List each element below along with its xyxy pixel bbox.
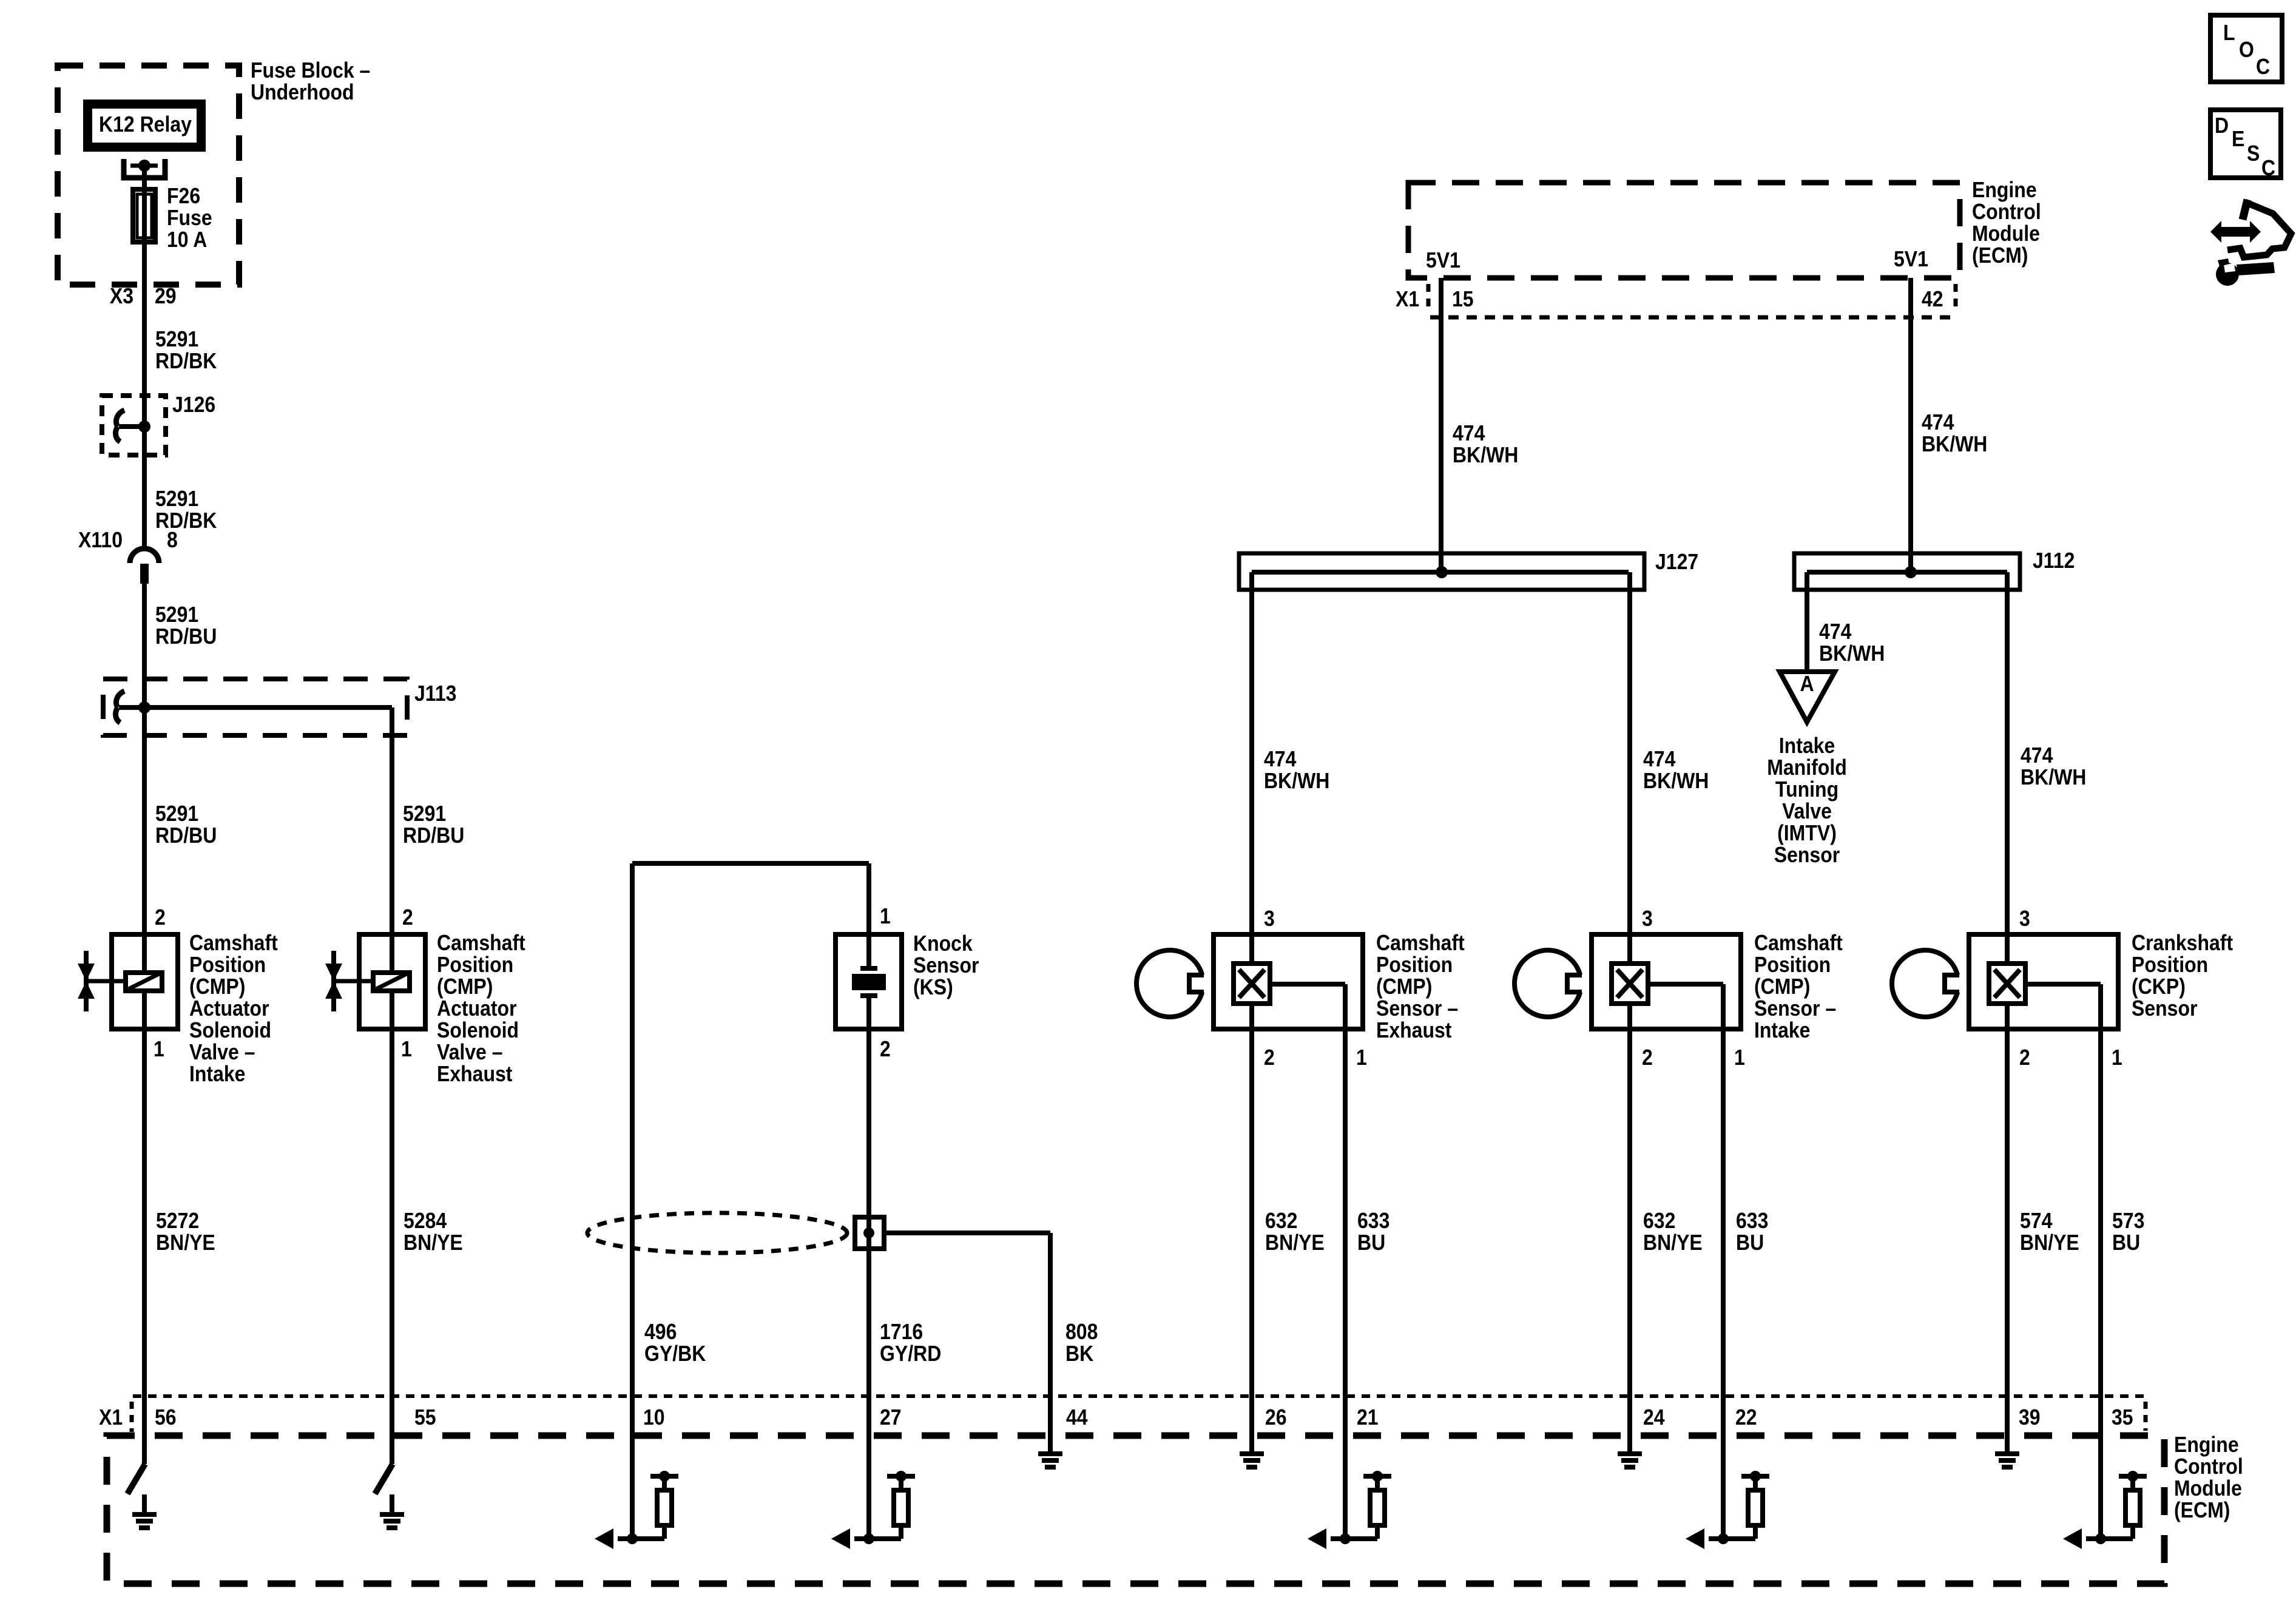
- svg-text:Control: Control: [1972, 200, 2041, 224]
- pin 55 label: [414, 1405, 436, 1430]
- label J127: [1655, 550, 1698, 574]
- node 5V1: [1426, 248, 1460, 272]
- svg-text:Valve –: Valve –: [437, 1040, 503, 1064]
- pin 42 label: [1922, 287, 1943, 311]
- CMP actuator solenoid valve intake: [78, 905, 278, 1086]
- svg-text:RD/BK: RD/BK: [155, 508, 217, 533]
- wire: [2098, 1436, 2103, 1539]
- svg-text:BK/WH: BK/WH: [1819, 641, 1885, 666]
- pin 22 label: [1735, 1405, 1757, 1430]
- svg-text:K12 Relay: K12 Relay: [99, 112, 192, 137]
- wire: [142, 166, 147, 548]
- svg-text:474: 474: [1453, 421, 1485, 445]
- svg-text:C: C: [2261, 156, 2275, 180]
- icon connector arrow: [2210, 200, 2291, 257]
- svg-text:1716: 1716: [880, 1320, 923, 1344]
- wire 5284 BN/YE: [392, 1031, 463, 1464]
- svg-text:633: 633: [1357, 1209, 1389, 1233]
- label 1716 GY/RD: [880, 1320, 941, 1366]
- svg-text:573: 573: [2112, 1209, 2144, 1233]
- svg-text:Underhood: Underhood: [251, 80, 354, 104]
- wire 573 BU: [2101, 1031, 2144, 1436]
- svg-text:Position: Position: [2132, 953, 2208, 977]
- ground: [1618, 1436, 1642, 1467]
- svg-text:Solenoid: Solenoid: [189, 1018, 271, 1042]
- wire: [1627, 932, 1632, 964]
- svg-text:5291: 5291: [155, 487, 198, 511]
- switch to ground: [127, 1464, 145, 1494]
- CMP sensor exhaust reluctor wheel: [1136, 950, 1203, 1017]
- CMP sensor exhaust: [1136, 906, 1465, 1070]
- connector X1 row: [132, 1396, 2146, 1432]
- svg-text:44: 44: [1066, 1405, 1088, 1430]
- CMP actuator solenoid valve exhaust: [325, 905, 525, 1086]
- pin 39 label: [2019, 1405, 2041, 1430]
- svg-text:55: 55: [414, 1405, 436, 1430]
- svg-text:496: 496: [644, 1320, 677, 1344]
- svg-text:15: 15: [1452, 287, 1474, 311]
- wire: [2005, 932, 2010, 964]
- svg-text:574: 574: [2020, 1209, 2052, 1233]
- wire 632 BN/YE: [1252, 1031, 1325, 1436]
- connector X1 row: [1428, 284, 1956, 317]
- splice J126: [102, 396, 166, 455]
- CMP sensor exhaust box: [1214, 934, 1363, 1029]
- svg-text:5291: 5291: [155, 327, 198, 351]
- CMP actuator solenoid exhaust coil: [373, 973, 410, 991]
- wire through intake solenoid: [142, 932, 147, 1031]
- ground: [380, 1494, 404, 1528]
- svg-text:42: 42: [1922, 287, 1943, 311]
- svg-text:Module: Module: [1972, 221, 2040, 246]
- svg-text:BK/WH: BK/WH: [1643, 769, 1709, 793]
- svg-text:Engine: Engine: [1972, 178, 2037, 202]
- svg-text:X110: X110: [78, 528, 123, 552]
- svg-text:1: 1: [880, 904, 891, 928]
- svg-text:35: 35: [2112, 1405, 2133, 1430]
- svg-text:Fuse Block –: Fuse Block –: [251, 58, 370, 83]
- internal resistor and signal arrow: [831, 1471, 915, 1549]
- svg-text:GY/BK: GY/BK: [644, 1342, 706, 1366]
- wire 633 BU: [1723, 1031, 1768, 1436]
- svg-text:474: 474: [1264, 747, 1296, 771]
- svg-text:1: 1: [401, 1037, 412, 1061]
- label X1: [99, 1405, 123, 1430]
- CKP sensor reluctor wheel: [1892, 950, 1959, 1017]
- svg-text:633: 633: [1736, 1209, 1768, 1233]
- wire 1716 GY/RD: [866, 1031, 871, 1436]
- svg-text:2: 2: [2019, 1045, 2030, 1070]
- splice pack J127: [1239, 553, 1644, 590]
- wire: [630, 1436, 635, 1539]
- svg-text:5272: 5272: [156, 1209, 199, 1233]
- svg-text:A: A: [1800, 672, 1814, 696]
- wire 574 BN/YE: [2007, 1031, 2079, 1436]
- svg-text:5V1: 5V1: [1894, 247, 1928, 271]
- wire J127 to CMP intake: [1627, 572, 1632, 932]
- CKP sensor box: [1969, 934, 2118, 1029]
- wire 5272 BN/YE: [144, 1031, 215, 1464]
- svg-text:1: 1: [1734, 1045, 1745, 1070]
- CKP sensor hall element: [1989, 964, 2025, 1004]
- connector X110 pin 8: [78, 528, 178, 584]
- svg-text:Actuator: Actuator: [189, 996, 269, 1021]
- svg-text:(CMP): (CMP): [1376, 974, 1432, 999]
- svg-text:BN/YE: BN/YE: [1643, 1230, 1703, 1255]
- label F26 Fuse 10 A: [167, 184, 212, 252]
- svg-text:Manifold: Manifold: [1767, 755, 1846, 780]
- svg-text:1: 1: [1356, 1045, 1367, 1070]
- svg-text:Camshaft: Camshaft: [1754, 931, 1843, 955]
- svg-text:3: 3: [2019, 906, 2030, 931]
- icon wrench: [2216, 258, 2275, 286]
- label Fuse Block - Underhood: [251, 58, 370, 104]
- svg-text:BK/WH: BK/WH: [1922, 432, 1987, 456]
- wire: [142, 584, 147, 932]
- pin 21 label: [1357, 1405, 1379, 1430]
- drain wire 808 BK: [884, 1233, 1050, 1451]
- svg-text:474: 474: [2021, 743, 2053, 768]
- svg-text:3: 3: [1264, 906, 1275, 931]
- ECM box: [107, 1436, 2164, 1584]
- svg-text:26: 26: [1265, 1405, 1287, 1430]
- svg-text:10: 10: [643, 1405, 665, 1430]
- svg-text:Position: Position: [1376, 953, 1453, 977]
- svg-text:Control: Control: [2174, 1454, 2243, 1479]
- wire: [1343, 1436, 1348, 1539]
- label Intake Manifold Tuning Valve (IMTV) Sensor: [1767, 734, 1846, 867]
- svg-text:39: 39: [2019, 1405, 2041, 1430]
- pin 15 label: [1452, 287, 1474, 311]
- svg-text:5291: 5291: [155, 603, 198, 627]
- knock sensor KS: [836, 863, 902, 1031]
- svg-text:Exhaust: Exhaust: [437, 1062, 512, 1086]
- wire: [1721, 1436, 1726, 1539]
- svg-text:632: 632: [1643, 1209, 1675, 1233]
- wire 474 BK/WH: [1264, 747, 1329, 793]
- wire 5291 RD/BK: [155, 487, 217, 533]
- svg-text:2: 2: [1642, 1045, 1653, 1070]
- svg-text:24: 24: [1643, 1405, 1665, 1430]
- svg-text:X1: X1: [1396, 287, 1419, 311]
- svg-text:5291: 5291: [403, 802, 446, 826]
- wire J112 to CKP: [2005, 572, 2010, 932]
- svg-text:(CMP): (CMP): [1754, 974, 1810, 999]
- pin 10 label: [643, 1405, 665, 1430]
- svg-text:GY/RD: GY/RD: [880, 1342, 941, 1366]
- internal resistor and signal arrow: [595, 1471, 678, 1549]
- wire J127 to CMP exhaust: [1249, 572, 1254, 932]
- wire through exhaust solenoid: [390, 932, 394, 1031]
- svg-text:10 A: 10 A: [167, 228, 207, 252]
- svg-text:BK/WH: BK/WH: [1264, 769, 1329, 793]
- ECM top box: [1408, 183, 1960, 278]
- relay terminal: [124, 159, 165, 178]
- label J112: [2033, 549, 2075, 573]
- pin 44 label: [1066, 1405, 1088, 1430]
- svg-text:1: 1: [154, 1037, 164, 1061]
- icon LOC: [2210, 15, 2282, 82]
- wire 474 BK/WH: [1911, 278, 1987, 572]
- svg-text:Valve: Valve: [1782, 799, 1832, 823]
- svg-text:RD/BK: RD/BK: [155, 349, 217, 373]
- svg-text:Intake: Intake: [1754, 1018, 1810, 1042]
- CMP actuator solenoid intake outer box: [112, 934, 178, 1029]
- svg-text:(KS): (KS): [913, 975, 953, 999]
- svg-text:X1: X1: [99, 1405, 123, 1430]
- CMP sensor intake: [1514, 906, 1843, 1070]
- fuse F26 10A: [133, 189, 155, 242]
- ground: [1038, 1436, 1062, 1467]
- svg-text:Camshaft: Camshaft: [437, 931, 525, 955]
- svg-text:Engine: Engine: [2174, 1433, 2239, 1457]
- relay K12: [83, 100, 206, 152]
- svg-text:Sensor –: Sensor –: [1754, 996, 1836, 1021]
- connector X3 pin 29: [110, 284, 177, 308]
- wire 5291 RD/BU: [403, 802, 464, 848]
- svg-text:Camshaft: Camshaft: [189, 931, 278, 955]
- svg-text:BU: BU: [1736, 1230, 1764, 1255]
- svg-text:J127: J127: [1655, 550, 1698, 574]
- svg-text:J112: J112: [2033, 549, 2075, 573]
- switch to ground: [375, 1464, 393, 1494]
- svg-text:(ECM): (ECM): [2174, 1498, 2230, 1522]
- pin 56 label: [155, 1405, 177, 1430]
- svg-text:8: 8: [167, 528, 178, 552]
- pin 26 label: [1265, 1405, 1287, 1430]
- svg-text:(IMTV): (IMTV): [1777, 821, 1837, 845]
- svg-text:BN/YE: BN/YE: [1265, 1230, 1325, 1255]
- svg-text:474: 474: [1819, 619, 1851, 644]
- wire 496 GY/BK: [632, 863, 869, 1436]
- wire: [1249, 932, 1254, 964]
- svg-text:J113: J113: [414, 681, 456, 706]
- svg-text:Sensor –: Sensor –: [1376, 996, 1458, 1021]
- internal resistor and signal arrow: [1686, 1471, 1769, 1549]
- svg-text:27: 27: [880, 1405, 902, 1430]
- svg-text:L: L: [2223, 21, 2235, 45]
- svg-text:(CKP): (CKP): [2132, 974, 2186, 999]
- label 496 GY/BK: [644, 1320, 706, 1366]
- CMP sensor intake hall element: [1612, 964, 1648, 1004]
- fuse block box: [58, 66, 239, 285]
- svg-text:BK/WH: BK/WH: [1453, 443, 1518, 467]
- ground: [1240, 1436, 1264, 1467]
- svg-text:BU: BU: [1357, 1230, 1385, 1255]
- ground: [132, 1494, 157, 1528]
- label Engine Control Module (ECM): [1972, 178, 2041, 268]
- svg-text:2: 2: [880, 1037, 891, 1061]
- CMP actuator solenoid intake valve symbol: [84, 951, 89, 1011]
- svg-text:474: 474: [1643, 747, 1675, 771]
- svg-text:5V1: 5V1: [1426, 248, 1460, 272]
- svg-text:56: 56: [155, 1405, 177, 1430]
- icon DESC: [2210, 110, 2281, 180]
- svg-text:E: E: [2232, 127, 2244, 151]
- wire: [866, 1436, 871, 1539]
- label J113: [414, 681, 456, 706]
- svg-text:Intake: Intake: [1779, 734, 1835, 758]
- svg-text:Tuning: Tuning: [1775, 777, 1838, 802]
- svg-text:808: 808: [1065, 1320, 1098, 1344]
- IMTV off-page reference A: [1780, 672, 1835, 722]
- pin 2 label: [880, 1037, 891, 1061]
- shield: [587, 1213, 847, 1253]
- svg-text:S: S: [2247, 141, 2260, 166]
- wire: [2025, 982, 2101, 987]
- svg-text:Sensor: Sensor: [913, 953, 979, 977]
- wire 474 BK/WH: [1643, 747, 1709, 793]
- svg-text:Knock: Knock: [913, 931, 973, 956]
- CMP actuator solenoid intake coil: [126, 973, 162, 991]
- svg-text:5284: 5284: [403, 1209, 447, 1233]
- svg-text:632: 632: [1265, 1209, 1297, 1233]
- svg-text:BN/YE: BN/YE: [2020, 1230, 2079, 1255]
- svg-text:Intake: Intake: [189, 1062, 245, 1086]
- pin 27 label: [880, 1405, 902, 1430]
- svg-text:21: 21: [1357, 1405, 1379, 1430]
- CMP actuator solenoid exhaust valve symbol: [331, 951, 336, 1011]
- svg-text:Camshaft: Camshaft: [1376, 931, 1465, 955]
- wire: [1648, 982, 1723, 987]
- svg-text:Valve –: Valve –: [189, 1040, 255, 1064]
- svg-text:BN/YE: BN/YE: [156, 1230, 215, 1255]
- node 5V1: [1894, 247, 1928, 271]
- wire 474 BK/WH: [2021, 743, 2086, 789]
- svg-text:BK/WH: BK/WH: [2021, 765, 2086, 789]
- svg-text:Sensor: Sensor: [1774, 843, 1840, 867]
- CMP sensor intake box: [1592, 934, 1741, 1029]
- svg-text:(ECM): (ECM): [1972, 243, 2028, 268]
- wire: [1270, 982, 1345, 987]
- CKP sensor: [1892, 906, 2233, 1070]
- pin 1 label: [880, 904, 891, 928]
- svg-text:2: 2: [1264, 1045, 1275, 1070]
- svg-text:RD/BU: RD/BU: [155, 823, 217, 848]
- label X1: [1396, 287, 1419, 311]
- svg-text:BK: BK: [1065, 1342, 1094, 1366]
- svg-text:C: C: [2256, 55, 2270, 79]
- svg-text:22: 22: [1735, 1405, 1757, 1430]
- svg-text:D: D: [2215, 113, 2229, 138]
- svg-text:Module: Module: [2174, 1476, 2242, 1501]
- wire 5291 RD/BK: [155, 327, 217, 373]
- CMP actuator solenoid exhaust outer box: [359, 934, 425, 1029]
- svg-text:Sensor: Sensor: [2132, 996, 2197, 1021]
- wire 5291 RD/BU: [155, 802, 217, 848]
- pin 24 label: [1643, 1405, 1665, 1430]
- svg-text:Crankshaft: Crankshaft: [2132, 931, 2233, 955]
- shield termination: [855, 1217, 884, 1249]
- wire branch to exhaust solenoid: [144, 707, 392, 932]
- pin 35 label: [2112, 1405, 2133, 1430]
- svg-text:J126: J126: [172, 393, 215, 417]
- wire 633 BU: [1345, 1031, 1389, 1436]
- svg-text:Position: Position: [189, 953, 266, 977]
- svg-text:5291: 5291: [155, 802, 198, 826]
- svg-text:(CMP): (CMP): [189, 974, 245, 999]
- svg-text:474: 474: [1922, 410, 1954, 434]
- svg-text:RD/BU: RD/BU: [155, 624, 217, 649]
- svg-text:Actuator: Actuator: [437, 996, 517, 1021]
- svg-text:2: 2: [402, 905, 413, 930]
- label Engine Control Module (ECM): [2174, 1433, 2243, 1522]
- wire J112 to IMTV: [1807, 572, 1885, 672]
- CMP sensor intake reluctor wheel: [1514, 950, 1581, 1017]
- splice pack J112: [1794, 553, 2020, 590]
- svg-text:Position: Position: [1754, 953, 1831, 977]
- svg-text:BU: BU: [2112, 1230, 2140, 1255]
- svg-text:(CMP): (CMP): [437, 974, 493, 999]
- svg-text:1: 1: [2112, 1045, 2122, 1070]
- svg-text:29: 29: [155, 284, 177, 308]
- svg-text:X3: X3: [110, 284, 133, 308]
- wire 474 BK/WH: [1441, 278, 1518, 572]
- label J126: [172, 393, 215, 417]
- svg-text:BN/YE: BN/YE: [403, 1230, 463, 1255]
- svg-text:O: O: [2239, 38, 2254, 62]
- svg-text:Exhaust: Exhaust: [1376, 1018, 1451, 1042]
- svg-text:2: 2: [155, 905, 166, 930]
- splice J113: [103, 679, 407, 735]
- label 808 BK: [1065, 1320, 1098, 1366]
- internal resistor and signal arrow: [1308, 1471, 1391, 1549]
- ground: [1995, 1436, 2019, 1467]
- svg-text:3: 3: [1642, 906, 1653, 931]
- svg-text:Solenoid: Solenoid: [437, 1018, 519, 1042]
- svg-text:Fuse: Fuse: [167, 206, 212, 230]
- internal resistor and signal arrow: [2063, 1471, 2147, 1549]
- CMP sensor exhaust hall element: [1234, 964, 1270, 1004]
- svg-text:Position: Position: [437, 953, 513, 977]
- label Knock Sensor (KS): [913, 931, 979, 999]
- svg-text:RD/BU: RD/BU: [403, 823, 464, 848]
- wire 632 BN/YE: [1630, 1031, 1703, 1436]
- wire 5291 RD/BU: [155, 603, 217, 649]
- svg-text:F26: F26: [167, 184, 200, 208]
